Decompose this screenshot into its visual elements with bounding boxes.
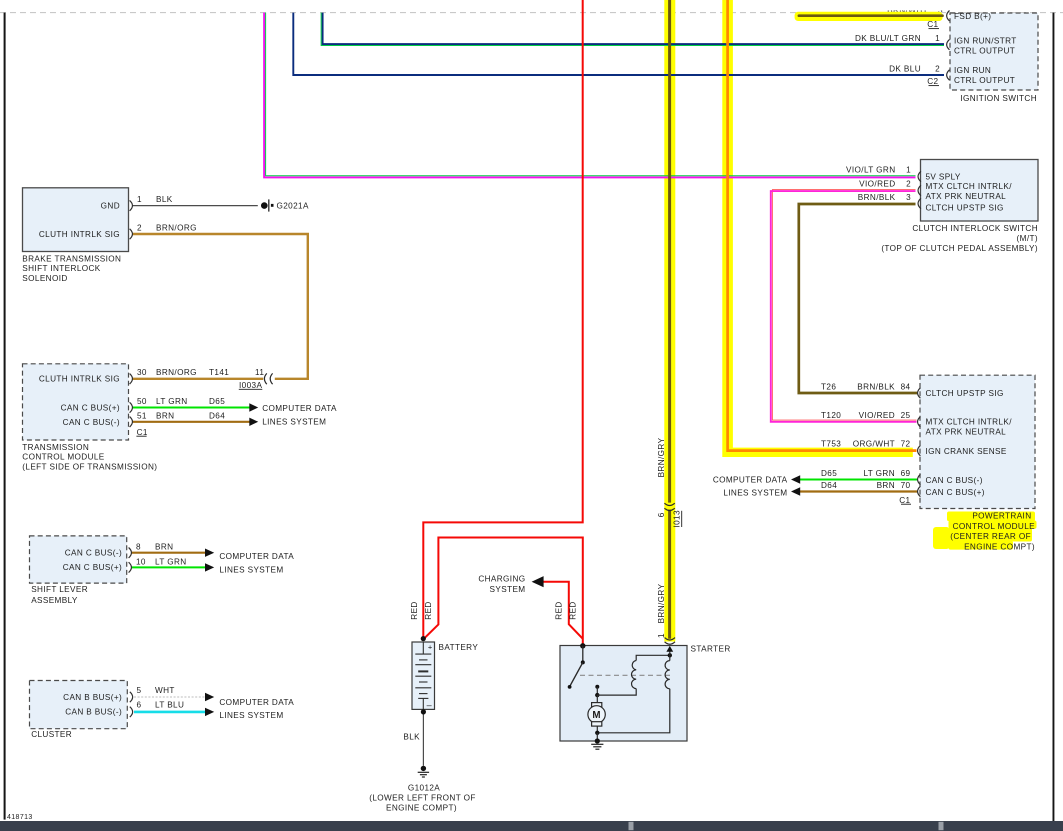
svg-text:LINES SYSTEM: LINES SYSTEM (723, 489, 787, 498)
brake transmission shift interlock solenoid box L1 (23, 188, 129, 252)
pin bracket ignition C1 (129, 11, 950, 718)
svg-text:CAN C BUS(-): CAN C BUS(-) (63, 418, 120, 427)
clutch interlock switch box S1 (921, 160, 1039, 222)
pin bracket solenoid 2 (130, 229, 133, 239)
starter switch stem (582, 646, 584, 663)
arrow computer data lines (PCM 70) (791, 487, 800, 495)
arrow up to starter pin 1 (669, 651, 671, 656)
pin bracket PCM 70 (918, 486, 921, 496)
wire DK BLU from top to ignition switch pin 2 (293, 13, 944, 75)
ground symbol G1012A (418, 766, 429, 777)
svg-text:COMPUTER DATA: COMPUTER DATA (219, 552, 294, 561)
svg-text:CAN C BUS(+): CAN C BUS(+) (926, 488, 985, 497)
svg-text:SHIFT INTERLOCK: SHIFT INTERLOCK (22, 264, 100, 273)
pull-in coil top lead (636, 655, 670, 660)
svg-text:CAN B BUS(+): CAN B BUS(+) (63, 693, 122, 702)
svg-text:ASSEMBLY: ASSEMBLY (31, 596, 78, 605)
svg-text:LT BLU: LT BLU (155, 701, 184, 710)
pin bracket clutch switch 1 (918, 171, 921, 181)
PCM pin labels (713, 382, 1012, 504)
pull-in coil (632, 661, 637, 689)
wire VIO/LT GRN from top to clutch interlock switch pin 1 (264, 13, 915, 178)
svg-text:BRN: BRN (877, 481, 895, 490)
wire RED starter terminal to charging system (538, 582, 583, 639)
underline C2 ignition (929, 85, 940, 87)
wire BRN/ORG from solenoid pin 2 to inline connector I003A (133, 234, 308, 379)
svg-text:T753: T753 (821, 439, 841, 448)
svg-text:C2: C2 (927, 77, 938, 86)
arrow computer data lines (shift 8) (205, 549, 214, 557)
svg-text:MTX CLTCH INTRLK/: MTX CLTCH INTRLK/ (926, 417, 1013, 426)
underline I003A (239, 388, 262, 390)
svg-text:MTX CLTCH INTRLK/: MTX CLTCH INTRLK/ (926, 182, 1013, 191)
svg-text:SOLENOID: SOLENOID (22, 274, 67, 283)
shift lever labels (31, 543, 294, 606)
svg-text:6: 6 (137, 701, 142, 710)
svg-text:GND: GND (101, 201, 120, 210)
svg-text:RED: RED (554, 601, 563, 619)
svg-text:1: 1 (906, 165, 911, 174)
svg-text:T141: T141 (209, 368, 229, 377)
svg-text:BRN/GRY: BRN/GRY (657, 437, 666, 477)
starter solenoid mechanical dashed link (580, 674, 673, 676)
svg-text:SHIFT LEVER: SHIFT LEVER (31, 585, 88, 594)
svg-text:TRANSMISSION: TRANSMISSION (22, 443, 89, 452)
toolbar separator 1 (629, 822, 634, 830)
pin bracket clutch switch 3 (918, 198, 921, 208)
PCM caption over highlight (950, 512, 1035, 552)
wire ORG/WHT from top to PCM pin 72 (728, 0, 917, 451)
wire LT GRN shift lever pin 10 (131, 566, 205, 568)
svg-text:LT GRN: LT GRN (863, 469, 895, 478)
svg-text:DK BLU: DK BLU (889, 65, 921, 74)
pin bracket solenoid 1 (130, 200, 133, 210)
pin bracket PCM 84 (918, 388, 921, 398)
wire BRN/BLK from clutch interlock pin 3 to PCM pin 84 (799, 204, 917, 393)
svg-text:BRN/ORG: BRN/ORG (156, 368, 197, 377)
starter ground stem (596, 733, 598, 741)
svg-text:+: + (428, 642, 433, 651)
solenoid box labels (22, 195, 197, 283)
svg-text:11: 11 (255, 368, 264, 377)
svg-text:G1012A: G1012A (408, 783, 440, 792)
svg-text:CAN C BUS(+): CAN C BUS(+) (61, 403, 120, 412)
starter switch arm (570, 662, 583, 685)
pin bracket TCM 51 (130, 417, 133, 427)
TCM labels (22, 368, 337, 471)
svg-text:D65: D65 (821, 469, 837, 478)
svg-text:CLUSTER: CLUSTER (31, 730, 72, 739)
toolbar separator 2 (939, 822, 944, 830)
ground splice symbol G2021A (261, 199, 274, 211)
page boundary dashed line (0, 12, 1063, 14)
wire BRN/GRY vertical lower segment to starter (668, 510, 671, 639)
svg-text:IGNITION SWITCH: IGNITION SWITCH (960, 94, 1037, 103)
inline connector I003A arcs (264, 373, 272, 384)
connector arcs at starter pin 1 (BRN/GRY wire end) (665, 638, 675, 645)
starter ground symbol (591, 744, 603, 749)
svg-text:3: 3 (906, 193, 911, 202)
arrow computer data lines (cluster 5) (205, 693, 214, 701)
pin bracket ignition 2 (947, 70, 950, 80)
svg-text:CAN C BUS(-): CAN C BUS(-) (926, 476, 983, 485)
svg-text:84: 84 (901, 382, 911, 391)
svg-text:BLK: BLK (156, 195, 173, 204)
svg-text:BRN/BLK: BRN/BLK (857, 382, 895, 391)
svg-text:COMPUTER DATA: COMPUTER DATA (219, 698, 294, 707)
svg-text:CTRL OUTPUT: CTRL OUTPUT (954, 46, 1015, 55)
wire BRN/GRY vertical upper segment (668, 0, 671, 503)
svg-text:ENGINE COMPT): ENGINE COMPT) (964, 542, 1035, 551)
svg-text:10: 10 (136, 557, 146, 566)
svg-text:BRN/BLK: BRN/BLK (858, 193, 896, 202)
svg-text:SYSTEM: SYSTEM (490, 585, 526, 594)
svg-text:2: 2 (906, 180, 911, 189)
clipped wire label remnant at top edge (0, 0, 1063, 15)
arrow computer data lines (TCM 50) (249, 403, 258, 411)
cluster box U5 (30, 681, 128, 729)
svg-text:LINES SYSTEM: LINES SYSTEM (219, 566, 283, 575)
svg-text:COMPUTER DATA: COMPUTER DATA (262, 404, 337, 413)
svg-text:VIO/RED: VIO/RED (859, 180, 895, 189)
wire LT GRN from TCM pin 50 (133, 407, 250, 409)
wire LT BLU cluster pin 6 (134, 711, 205, 714)
svg-text:C1: C1 (899, 496, 910, 505)
svg-text:6: 6 (657, 512, 666, 517)
svg-text:CLTCH UPSTP SIG: CLTCH UPSTP SIG (926, 389, 1004, 398)
junction dot battery positive (421, 636, 426, 641)
wire BRN to ignition switch pin C1 (799, 14, 943, 17)
svg-text:ENGINE COMPT): ENGINE COMPT) (386, 804, 457, 813)
underline C1 TCM (136, 435, 146, 437)
wire RED battery positive to starter terminal (423, 538, 582, 646)
svg-text:I003A: I003A (239, 381, 262, 390)
svg-text:IGN CRANK SENSE: IGN CRANK SENSE (926, 447, 1007, 456)
svg-text:LINES SYSTEM: LINES SYSTEM (219, 711, 283, 720)
transmission control module box U3 (23, 364, 129, 440)
svg-text:RED: RED (410, 601, 419, 619)
svg-text:5V SPLY: 5V SPLY (926, 173, 961, 182)
starter junction dot motor top (595, 693, 599, 697)
starter switch pivot dot (581, 660, 585, 664)
svg-text:1: 1 (935, 34, 940, 43)
wire VIO/RED from clutch interlock pin 2 to PCM pin 25 (771, 191, 917, 422)
clutch interlock switch labels (846, 165, 1038, 253)
svg-text:25: 25 (901, 411, 911, 420)
svg-text:CLUTH INTRLK SIG: CLUTH INTRLK SIG (39, 230, 120, 239)
arrow computer data lines (PCM 69) (791, 475, 800, 483)
starter M1 box (560, 646, 687, 742)
shift lever assembly box U4 (30, 536, 127, 583)
arrow computer data lines (TCM 51) (249, 418, 258, 426)
svg-text:(CENTER REAR OF: (CENTER REAR OF (950, 532, 1031, 541)
pin bracket cluster 5 (130, 692, 133, 702)
svg-text:POWERTRAIN: POWERTRAIN (972, 512, 1031, 521)
pin bracket TCM 30 (130, 374, 133, 384)
ignition switch connector box U1 (950, 13, 1038, 90)
svg-text:5: 5 (137, 686, 142, 695)
wire BRN from TCM pin 51 (133, 421, 250, 423)
motor M symbol (588, 695, 605, 733)
wire WHT cluster pin 5 (134, 696, 205, 698)
svg-text:CAN C BUS(-): CAN C BUS(-) (65, 548, 122, 557)
svg-text:50: 50 (137, 397, 147, 406)
junction dot motor bottom (595, 731, 599, 735)
svg-text:CLUTH INTRLK SIG: CLUTH INTRLK SIG (39, 375, 120, 384)
svg-text:1: 1 (657, 633, 666, 638)
arrow computer data lines (cluster 6) (205, 708, 214, 716)
svg-text:BRAKE TRANSMISSION: BRAKE TRANSMISSION (22, 254, 121, 263)
wire BRN shift lever pin 8 (131, 552, 205, 554)
svg-text:CONTROL MODULE: CONTROL MODULE (22, 453, 105, 462)
page edge line right (1053, 13, 1055, 823)
highlighter band on top BRN wire to ignition switch (795, 12, 943, 21)
starter switch arm end dot (568, 685, 572, 689)
svg-text:70: 70 (901, 481, 911, 490)
pin bracket ignition 1 (947, 39, 950, 49)
svg-text:(M/T): (M/T) (1017, 234, 1038, 243)
pin bracket clutch switch 2 (918, 185, 921, 195)
svg-text:BRN: BRN (155, 543, 173, 552)
inline connector I013 on BRN/GRY wire (664, 503, 674, 510)
pin bracket cluster 6 (130, 707, 133, 717)
page edge line left (4, 13, 6, 820)
underline C1 ignition (929, 28, 940, 30)
svg-text:C1: C1 (137, 428, 148, 437)
svg-text:WHT: WHT (155, 686, 175, 695)
wire DK BLU/LT GRN main navy conductor (323, 13, 944, 44)
svg-text:8: 8 (136, 543, 141, 552)
svg-text:1: 1 (137, 195, 142, 204)
svg-text:CONTROL MODULE: CONTROL MODULE (953, 522, 1036, 531)
svg-text:(LOWER LEFT FRONT OF: (LOWER LEFT FRONT OF (369, 794, 475, 803)
svg-text:D64: D64 (821, 481, 837, 490)
svg-text:FSD B(+): FSD B(+) (954, 12, 991, 21)
svg-text:2: 2 (137, 223, 142, 232)
svg-text:BRN/GRY: BRN/GRY (657, 583, 666, 623)
svg-text:CLUTCH INTERLOCK SWITCH: CLUTCH INTERLOCK SWITCH (912, 224, 1038, 233)
svg-text:–: – (427, 700, 432, 710)
svg-text:ORG/WHT: ORG/WHT (853, 439, 895, 448)
arrow computer data lines (shift 10) (205, 563, 214, 571)
svg-text:RED: RED (424, 601, 433, 619)
svg-text:(LEFT SIDE OF TRANSMISSION): (LEFT SIDE OF TRANSMISSION) (22, 463, 157, 472)
svg-text:G2021A: G2021A (277, 202, 309, 211)
svg-text:CAN B BUS(-): CAN B BUS(-) (65, 708, 122, 717)
svg-text:VIO/RED: VIO/RED (859, 411, 895, 420)
svg-text:STARTER: STARTER (691, 645, 731, 654)
arrow to charging system (532, 576, 544, 587)
svg-text:T120: T120 (821, 411, 841, 420)
svg-text:72: 72 (901, 439, 911, 448)
svg-text:CHARGING: CHARGING (478, 574, 525, 583)
wire to pull-in coil (597, 689, 636, 696)
starter ground dot (595, 738, 600, 743)
wire DK BLU/LT GRN from top to ignition switch pin 1 (green tracer) (321, 13, 944, 46)
svg-text:IGN RUN: IGN RUN (954, 66, 991, 75)
pin bracket shift lever 10 (129, 562, 132, 572)
svg-text:D64: D64 (209, 412, 225, 421)
wire LT GRN PCM pin 69 to computer data lines (800, 479, 918, 481)
battery BT1 box (412, 642, 435, 709)
pin bracket PCM 72 (918, 445, 921, 455)
bottom toolbar (0, 821, 1063, 831)
svg-text:69: 69 (901, 469, 911, 478)
svg-text:CLTCH UPSTP SIG: CLTCH UPSTP SIG (926, 204, 1004, 213)
highlighter band on BRN/GRY vertical wire (664, 0, 675, 642)
svg-text:ATX PRK NEUTRAL: ATX PRK NEUTRAL (926, 427, 1007, 436)
starter contact dot upper (595, 685, 599, 689)
svg-text:T26: T26 (821, 382, 836, 391)
svg-text:DK BLU/LT GRN: DK BLU/LT GRN (855, 34, 921, 43)
wire RED battery feed from top of page to battery positive (423, 0, 582, 638)
svg-text:VIO/LT GRN: VIO/LT GRN (846, 165, 895, 174)
svg-text:51: 51 (137, 412, 147, 421)
hold-in coil (665, 661, 670, 689)
svg-text:IGN RUN/STRT: IGN RUN/STRT (954, 36, 1017, 45)
ignition switch pin labels (855, 12, 1037, 103)
svg-text:LT GRN: LT GRN (155, 557, 187, 566)
svg-text:D65: D65 (209, 397, 225, 406)
pin bracket PCM 25 (918, 417, 921, 427)
pin bracket PCM 69 (918, 474, 921, 484)
svg-text:ATX PRK NEUTRAL: ATX PRK NEUTRAL (926, 192, 1007, 201)
junction dot coils top (668, 653, 672, 657)
svg-text:BATTERY: BATTERY (439, 643, 479, 652)
battery BT1 internal plates and terminals (415, 642, 431, 709)
svg-text:COMPUTER DATA: COMPUTER DATA (713, 476, 788, 485)
wire BRN PCM pin 70 to computer data lines (800, 490, 918, 492)
wire VIO/RED red tracer (772, 190, 916, 421)
underline C1 PCM (901, 503, 911, 505)
svg-text:BRN/ORG: BRN/ORG (156, 223, 197, 232)
pin bracket TCM 50 (130, 402, 133, 412)
starter contact stem (596, 687, 598, 695)
wire BLK battery negative to ground G1012A (422, 712, 424, 766)
svg-text:M: M (592, 710, 601, 721)
wire BLK from solenoid pin 1 to ground G2021A (133, 205, 258, 207)
svg-text:I013: I013 (673, 510, 682, 528)
svg-text:C1: C1 (927, 20, 938, 29)
starter internals: terminal junction dot (580, 643, 585, 648)
junction dot battery negative (421, 709, 426, 714)
svg-text:30: 30 (137, 368, 147, 377)
hold-in coil bottom lead (597, 689, 670, 733)
svg-text:BRN: BRN (156, 412, 174, 421)
svg-text:418713: 418713 (7, 814, 33, 821)
svg-text:RED: RED (568, 601, 577, 619)
cluster labels (31, 686, 294, 739)
svg-text:2: 2 (935, 65, 940, 74)
wire VIO/LT GRN green tracer (266, 13, 916, 176)
hold-in coil top lead (669, 655, 671, 660)
highlighter blob over POWERTRAIN CONTROL MODULE caption (933, 512, 1037, 550)
svg-text:(TOP OF CLUTCH PEDAL ASSEMBLY): (TOP OF CLUTCH PEDAL ASSEMBLY) (881, 244, 1038, 253)
svg-text:LINES SYSTEM: LINES SYSTEM (262, 417, 326, 426)
svg-text:CAN C BUS(+): CAN C BUS(+) (63, 563, 122, 572)
svg-text:BLK: BLK (403, 733, 420, 742)
wire BRN/ORG from TCM pin 30 to inline connector (133, 378, 264, 380)
svg-text:CTRL OUTPUT: CTRL OUTPUT (954, 76, 1015, 85)
highlighter band on ORG/WHT wire (722, 0, 913, 457)
svg-text:LT GRN: LT GRN (156, 397, 188, 406)
pin bracket shift lever 8 (129, 548, 132, 558)
powertrain control module box U2 (920, 375, 1035, 508)
